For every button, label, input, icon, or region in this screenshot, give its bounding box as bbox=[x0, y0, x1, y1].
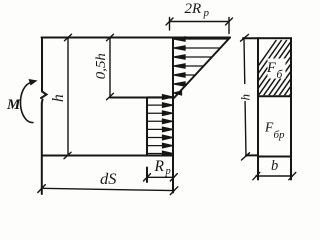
svg-text:M: M bbox=[6, 97, 21, 113]
svg-text:h: h bbox=[238, 94, 253, 101]
svg-text:p: p bbox=[203, 7, 210, 19]
svg-text:p: p bbox=[165, 166, 171, 177]
svg-text:бр: бр bbox=[274, 129, 286, 141]
svg-text:dS: dS bbox=[100, 171, 117, 188]
svg-text:b: b bbox=[271, 158, 278, 174]
svg-text:0,5h: 0,5h bbox=[93, 53, 108, 79]
svg-text:F: F bbox=[264, 120, 274, 135]
svg-text:2R: 2R bbox=[185, 1, 202, 17]
svg-text:F: F bbox=[266, 60, 276, 76]
svg-text:R: R bbox=[154, 158, 165, 175]
svg-text:h: h bbox=[50, 94, 67, 102]
